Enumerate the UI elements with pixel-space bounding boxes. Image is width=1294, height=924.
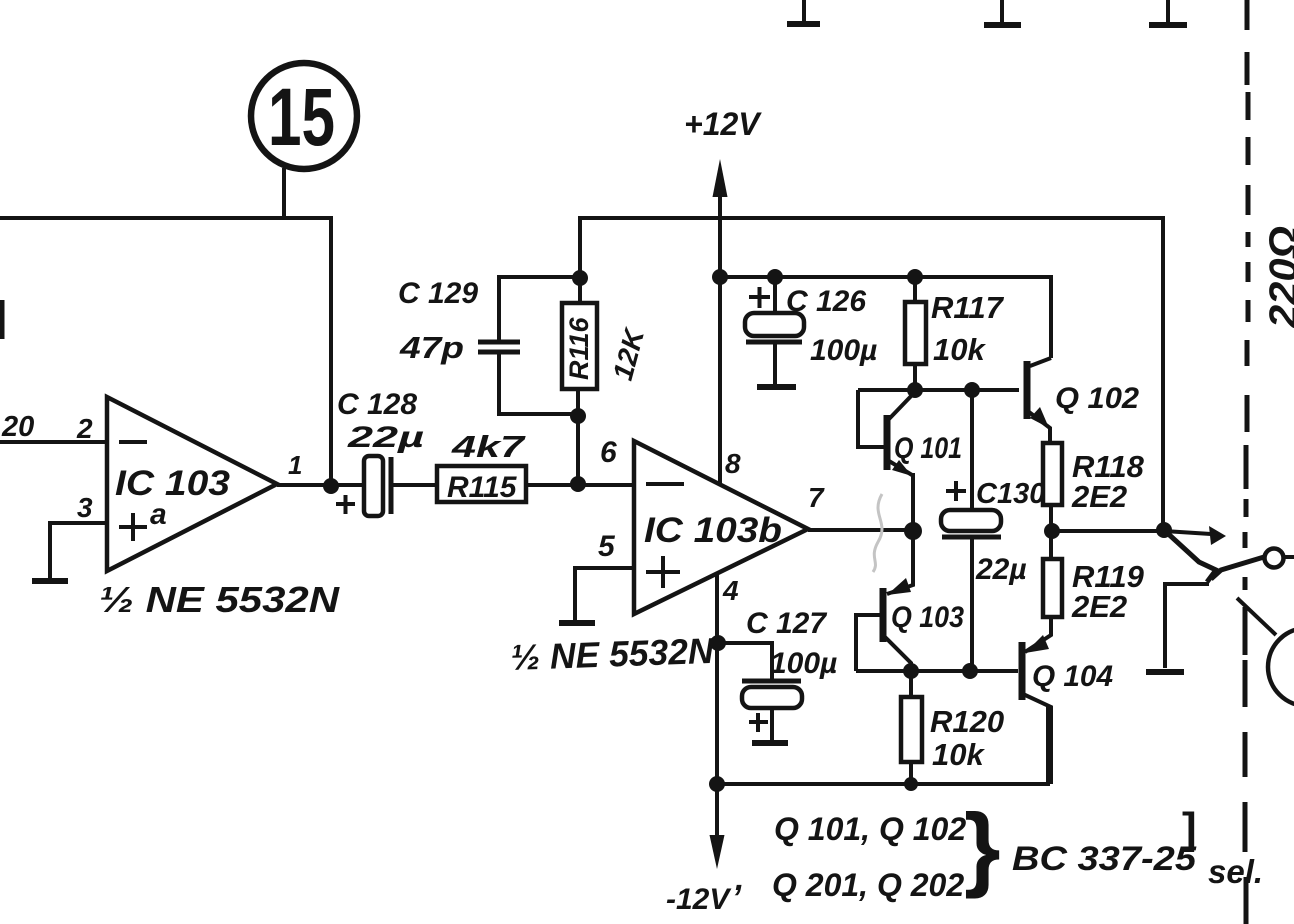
svg-text:6: 6 — [600, 436, 617, 469]
wire C128 to R115 — [391, 483, 437, 487]
svg-text:10k: 10k — [932, 737, 985, 772]
svg-text:C 126: C 126 — [786, 285, 866, 318]
svg-text:Q 102: Q 102 — [1055, 382, 1139, 415]
svg-text:4k7: 4k7 — [451, 429, 527, 464]
ground C126 — [757, 384, 796, 390]
junction dot R116 bottom — [570, 408, 586, 424]
svg-text:+12V: +12V — [684, 106, 762, 142]
capacitor C127 100u — [718, 607, 837, 741]
dashed border line — [1245, 0, 1248, 924]
junction dot C126 top — [767, 269, 783, 285]
svg-text:Q 101, Q 102: Q 101, Q 102 — [774, 811, 966, 847]
wire bias node A — [858, 388, 1019, 392]
wire R118 R119 junction to switch — [1052, 529, 1164, 533]
resistor R118 2E2 — [1043, 443, 1145, 530]
svg-text:IC 103b: IC 103b — [644, 511, 782, 550]
ground op-amp2 — [559, 620, 595, 626]
svg-text:1: 1 — [288, 450, 302, 480]
resistor R115 4k7 — [437, 429, 526, 504]
resistor R117 10k — [905, 277, 1005, 390]
svg-text:C 128: C 128 — [337, 388, 417, 421]
junction dot R117 top — [907, 269, 923, 285]
svg-text:C 127: C 127 — [746, 607, 827, 640]
svg-text:sel.: sel. — [1208, 853, 1263, 890]
scan artifact squiggle — [873, 494, 882, 572]
svg-text:2E2: 2E2 — [1071, 589, 1127, 624]
resistor R119 2E2 — [1043, 530, 1145, 624]
svg-text:100µ: 100µ — [810, 334, 877, 367]
wire stub left edge — [0, 300, 5, 339]
svg-text:Q 201, Q 202: Q 201, Q 202 — [772, 867, 964, 903]
junction dot R116 top — [572, 270, 588, 286]
svg-text:2: 2 — [76, 413, 93, 444]
transistor Q104 — [1022, 617, 1113, 784]
ground top 3 — [1149, 0, 1187, 25]
wire left top rail to op-amp1 output feedback — [0, 218, 331, 486]
capacitor C129 47p — [398, 277, 580, 414]
svg-text:R116: R116 — [564, 316, 594, 380]
svg-text:½ NE 5532N: ½ NE 5532N — [510, 630, 715, 678]
switch contact circle — [1265, 549, 1284, 568]
node A junction dot — [323, 478, 339, 494]
svg-text:IC 103: IC 103 — [115, 464, 231, 503]
junction dot node B R120 — [903, 663, 919, 679]
junction dot node A C130 — [964, 382, 980, 398]
svg-text:2E2: 2E2 — [1071, 479, 1127, 514]
svg-text:20: 20 — [1, 411, 34, 443]
svg-text:R117: R117 — [931, 290, 1005, 325]
svg-text:47p: 47p — [399, 330, 464, 365]
wire pin3 to ground — [50, 523, 107, 579]
ground switch — [1146, 669, 1184, 675]
resistor R116 12K — [562, 277, 651, 484]
wire negative rail — [716, 707, 1048, 784]
junction dot output switch — [1156, 522, 1172, 538]
svg-text:C130: C130 — [976, 478, 1045, 510]
svg-text:22µ: 22µ — [975, 553, 1027, 586]
wire op-amp1 output — [277, 483, 364, 487]
-12V arrow — [666, 835, 732, 916]
op-amp U1 IC103a — [76, 397, 302, 571]
svg-text:C 129: C 129 — [398, 277, 478, 310]
wire feedback from output node: rail top right, down to switch — [580, 218, 1163, 530]
node 15 circle — [251, 63, 357, 218]
junction dot rail -12V — [709, 776, 725, 792]
capacitor C128 — [336, 388, 424, 516]
svg-text:]: ] — [1182, 804, 1197, 853]
ground top 1 — [787, 0, 820, 24]
node B junction dot pin6 — [570, 476, 586, 492]
+12V distribution wire — [720, 277, 1051, 358]
svg-text:R115: R115 — [447, 471, 518, 504]
wire switch to ground — [1165, 584, 1209, 668]
svg-text:10k: 10k — [933, 332, 986, 367]
transistor Q102 — [1027, 358, 1139, 443]
junction dot C127 — [710, 635, 726, 651]
svg-text:4: 4 — [722, 575, 739, 606]
junction dot node A R117 — [907, 382, 923, 398]
svg-text:-12V: -12V — [666, 883, 732, 916]
svg-text:5: 5 — [598, 530, 616, 563]
switch lever — [1164, 526, 1264, 582]
op-amp U2 IC103b — [634, 441, 825, 614]
svg-text:22µ: 22µ — [346, 421, 424, 454]
svg-text:100µ: 100µ — [770, 647, 837, 680]
svg-text:R120: R120 — [930, 704, 1004, 739]
junction dot +12V — [712, 269, 728, 285]
wire R115 to pin6 — [526, 483, 634, 487]
wire contact to edge — [1284, 555, 1294, 559]
ground top 2 — [984, 0, 1021, 25]
transistor Q103 — [856, 531, 964, 671]
junction dot node B C130 — [962, 663, 978, 679]
svg-text:}: } — [964, 794, 1001, 899]
svg-text:15: 15 — [268, 72, 335, 163]
capacitor C126 100u — [745, 277, 877, 385]
svg-text:3: 3 — [77, 492, 93, 523]
transistor Q101 — [858, 390, 962, 530]
wire pin4 to -12V — [715, 573, 719, 840]
headphone jack arc — [1237, 598, 1294, 706]
svg-text:BC 337-25: BC 337-25 — [1012, 840, 1197, 878]
transistor list text — [772, 794, 1263, 903]
junction dot output R118 R119 — [1044, 523, 1060, 539]
wire op-amp2 output to emitters — [808, 528, 913, 532]
svg-text:a: a — [150, 498, 167, 531]
junction dot R120 bottom — [904, 777, 918, 791]
svg-text:Q 101: Q 101 — [894, 432, 962, 465]
svg-text:8: 8 — [725, 448, 741, 479]
svg-text:½ NE 5532N: ½ NE 5532N — [99, 579, 340, 620]
capacitor C130 22u — [941, 390, 1045, 671]
ground C127 — [752, 740, 788, 746]
wire pin5 to ground — [575, 568, 634, 621]
svg-text:7: 7 — [808, 482, 825, 513]
+12V arrow — [684, 106, 762, 485]
wire pin2 input — [0, 440, 107, 444]
resistor R120 10k — [901, 671, 1004, 784]
svg-text:220Ω: 220Ω — [1262, 226, 1294, 329]
svg-text:Q 103: Q 103 — [891, 601, 964, 634]
wire bias node B — [856, 669, 1018, 673]
junction dot output Q101 — [904, 522, 922, 540]
svg-text:Q 104: Q 104 — [1032, 660, 1113, 693]
ground op-amp1 — [32, 578, 68, 584]
svg-text:,: , — [734, 860, 744, 898]
